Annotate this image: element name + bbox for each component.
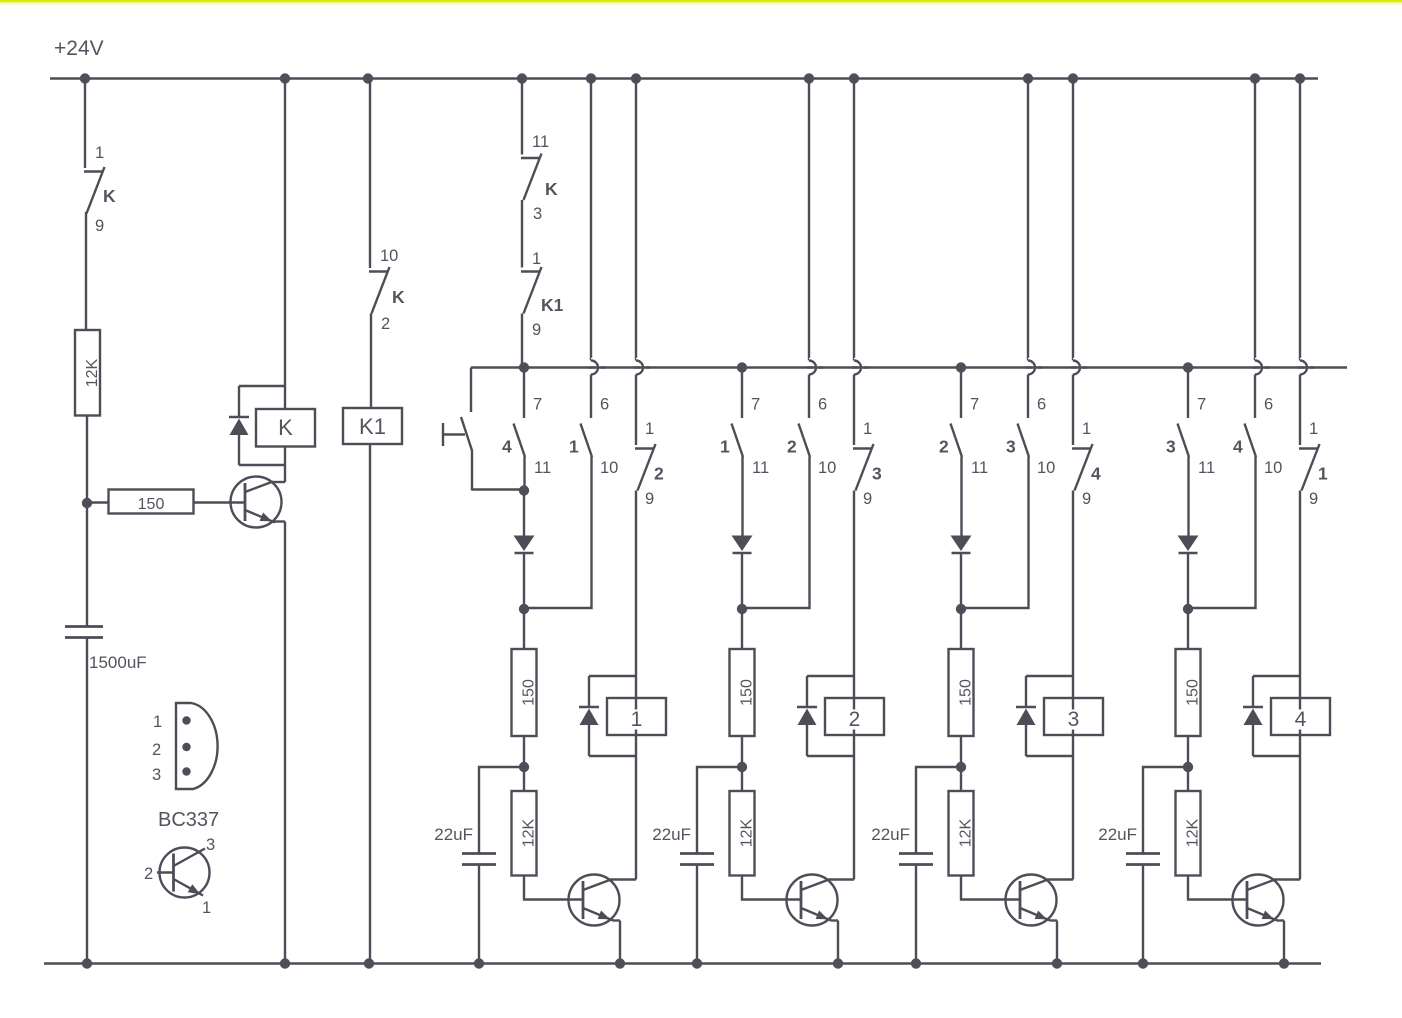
wire switch 3 down through relay coil 2 to collector bbox=[853, 491, 855, 880]
node B junction bbox=[82, 498, 92, 508]
wire rail2 to switch 4 stage 1 bbox=[523, 368, 525, 419]
svg-text:4: 4 bbox=[1233, 437, 1243, 457]
label 2 of relay coil bbox=[847, 710, 863, 730]
node T1 junction bbox=[519, 604, 529, 614]
diode D3b flyback of relay 3 bbox=[1016, 706, 1036, 709]
svg-text:1500uF: 1500uF bbox=[89, 653, 147, 672]
wire 150 to node U1 bbox=[523, 736, 525, 791]
wire switch 4 down to node T4 bbox=[1188, 457, 1256, 609]
svg-text:K: K bbox=[278, 415, 293, 440]
svg-text:K1: K1 bbox=[541, 295, 564, 315]
svg-text:12K: 12K bbox=[520, 818, 537, 847]
wire hop over rail2 at 636 bbox=[636, 361, 643, 375]
wire 12K to Q2 base bbox=[742, 876, 801, 900]
svg-text:11: 11 bbox=[752, 459, 769, 477]
svg-text:1: 1 bbox=[202, 899, 211, 917]
switch contact 7-11 (2) stage 3 bbox=[951, 424, 963, 458]
wire 12K to Q4 base bbox=[1188, 876, 1247, 900]
resistor 12K stage 3 bbox=[949, 791, 974, 876]
svg-text:2: 2 bbox=[849, 708, 861, 731]
svg-text:2: 2 bbox=[939, 437, 949, 457]
series diode D3a stage 3 bbox=[951, 536, 972, 552]
label K of relay coil bbox=[276, 419, 296, 439]
node U3 junction bbox=[956, 762, 966, 772]
transistor Q1 bbox=[569, 875, 620, 926]
node top rail junction ladder bbox=[517, 73, 527, 83]
resistor 12K stage 1 bbox=[512, 791, 537, 876]
wire flyback loop top relay 2 bbox=[807, 675, 854, 677]
wire QK emitter bend bbox=[273, 520, 285, 522]
svg-text:1: 1 bbox=[631, 708, 643, 731]
svg-text:1: 1 bbox=[95, 144, 104, 162]
wire diode D3b to loop bottom bbox=[1025, 725, 1027, 756]
capacitor 22uF C1 bbox=[462, 852, 496, 855]
node ground junction relay K1 bbox=[364, 958, 374, 968]
node ground junction Q2 bbox=[833, 958, 843, 968]
svg-text:10: 10 bbox=[380, 247, 398, 265]
wire Q2 collector to relay bbox=[828, 878, 854, 880]
svg-text:BC337: BC337 bbox=[158, 809, 219, 831]
svg-text:K: K bbox=[103, 186, 116, 206]
node ground junction Q3 bbox=[1052, 958, 1062, 968]
wire diode D3a to node T3 bbox=[960, 554, 962, 609]
svg-text:10: 10 bbox=[818, 459, 836, 477]
switch contact 6-10 (1) stage 1 bbox=[581, 424, 593, 458]
pushbutton start actuator stem bbox=[443, 433, 465, 435]
wire Q2 emitter to ground bbox=[837, 921, 839, 964]
wire C3 to ground rail bbox=[915, 865, 917, 964]
svg-text:10: 10 bbox=[1037, 459, 1055, 477]
wire switch 1 down through relay coil 4 to collector bbox=[1299, 491, 1301, 880]
resistor 150 stage 4 bbox=[1176, 649, 1201, 736]
switch K1 contact 1-9 bbox=[521, 270, 541, 272]
wire loop left down to diode DK bbox=[238, 386, 240, 416]
svg-text:1: 1 bbox=[720, 437, 730, 457]
svg-text:10: 10 bbox=[1264, 459, 1282, 477]
wire rail2 to switch 1 stage 2 bbox=[741, 368, 743, 419]
svg-text:3: 3 bbox=[1068, 708, 1080, 731]
svg-text:3: 3 bbox=[1006, 437, 1016, 457]
relay coil K bbox=[256, 409, 315, 447]
svg-text:1: 1 bbox=[569, 437, 579, 457]
wire switch 2 down to node T2 bbox=[742, 457, 810, 609]
svg-text:12K: 12K bbox=[1184, 818, 1201, 847]
svg-text:12K: 12K bbox=[84, 358, 101, 387]
node second rail junction stage 1 bbox=[519, 362, 529, 372]
wire +24V down to switch 3 stage 3 bbox=[1027, 79, 1029, 361]
BC337 package outline (TO-92 bottom view) bbox=[176, 703, 218, 789]
svg-text:+24V: +24V bbox=[54, 37, 104, 60]
diode D1b flyback of relay 1 bbox=[579, 706, 599, 709]
svg-text:2: 2 bbox=[787, 437, 797, 457]
wire diode D4a to node T4 bbox=[1187, 554, 1189, 609]
node U1 junction bbox=[519, 762, 529, 772]
wire hop to switch 3 contact bbox=[1027, 375, 1029, 419]
wire +24V down to relay coil K bbox=[284, 79, 286, 410]
svg-text:4: 4 bbox=[502, 437, 512, 457]
wire switch 2 down through relay coil 1 to collector bbox=[635, 491, 637, 880]
wire diode D1a to node T1 bbox=[523, 554, 525, 609]
svg-text:150: 150 bbox=[138, 496, 165, 513]
wire flyback loop top relay 3 bbox=[1026, 675, 1073, 677]
wire loop down to diode D3b bbox=[1025, 676, 1027, 706]
diode DK flyback of relay K bbox=[229, 416, 249, 419]
svg-text:1: 1 bbox=[1318, 464, 1328, 484]
wire 150 to node U3 bbox=[960, 736, 962, 791]
svg-text:11: 11 bbox=[532, 133, 549, 151]
label 1 of relay coil bbox=[629, 710, 645, 730]
svg-text:1: 1 bbox=[645, 420, 654, 438]
svg-text:9: 9 bbox=[95, 217, 104, 235]
wire node U1 to capacitor 22uF C1 bbox=[479, 767, 524, 853]
svg-text:6: 6 bbox=[818, 396, 827, 414]
transistor QK bbox=[231, 477, 282, 528]
wire hop to switch 2 contact bbox=[808, 375, 810, 419]
wire flyback loop bottom relay 3 bbox=[1026, 755, 1073, 757]
switch contact 1-9 (4) stage 3 bbox=[1072, 447, 1092, 449]
wire switch 1 down to node T1 bbox=[524, 457, 592, 609]
wire top +24V rail bbox=[50, 77, 1318, 80]
wire diode D2b to loop bottom bbox=[806, 725, 808, 756]
svg-text:11: 11 bbox=[534, 459, 551, 477]
resistor 150 stage 3 bbox=[949, 649, 974, 736]
node top rail junction relay K bbox=[280, 73, 290, 83]
wire diode DK to loop bottom bbox=[238, 435, 240, 465]
node ground junction left bbox=[82, 958, 92, 968]
switch contact 1-9 (1) stage 4 bbox=[1299, 447, 1319, 449]
svg-text:4: 4 bbox=[1295, 708, 1307, 731]
wire switch K 10-2 down to relay K1 bbox=[370, 314, 372, 409]
capacitor 22uF C4 bbox=[1126, 852, 1160, 855]
wire switch 4 to node S1 bbox=[523, 457, 525, 492]
resistor 150 stage 1 bbox=[512, 649, 537, 736]
wire diode D4b to loop bottom bbox=[1252, 725, 1254, 756]
svg-text:12K: 12K bbox=[738, 818, 755, 847]
svg-text:6: 6 bbox=[1037, 396, 1046, 414]
wire Q4 emitter to ground bbox=[1283, 921, 1285, 964]
svg-text:9: 9 bbox=[532, 321, 541, 339]
wire Q1 collector to relay bbox=[610, 878, 636, 880]
wire hop over rail2 at 809 bbox=[809, 361, 816, 375]
svg-text:10: 10 bbox=[600, 459, 618, 477]
transistor Q4 bbox=[1233, 875, 1284, 926]
svg-text:9: 9 bbox=[1082, 490, 1091, 508]
wire Q1 emitter to ground bbox=[619, 921, 621, 964]
wire diode D2a to node T2 bbox=[741, 554, 743, 609]
wire loop down to diode D2b bbox=[806, 676, 808, 706]
wire flyback loop bottom relay 4 bbox=[1253, 755, 1300, 757]
wire hop to switch 2 contact bbox=[635, 375, 637, 446]
wire Q3 emitter to ground bbox=[1056, 921, 1058, 964]
switch K contact 1-9 bbox=[84, 170, 104, 172]
wire hop to switch 4 contact bbox=[1254, 375, 1256, 419]
wire node B to resistor 150 bbox=[87, 501, 108, 503]
svg-text:3: 3 bbox=[872, 464, 882, 484]
wire +24V down to switch 2 stage 2 bbox=[808, 79, 810, 361]
svg-text:7: 7 bbox=[533, 396, 542, 414]
svg-text:9: 9 bbox=[645, 490, 654, 508]
label 4 of relay coil bbox=[1293, 710, 1309, 730]
wire +24V down to switch K pin 10 bbox=[369, 79, 371, 269]
node ground junction C2 bbox=[692, 958, 702, 968]
wire flyback loop top relay 1 bbox=[589, 675, 636, 677]
pushbutton start blade bbox=[461, 417, 472, 451]
series diode D4a stage 4 bbox=[1178, 536, 1199, 552]
wire 12K to Q1 base bbox=[524, 876, 583, 900]
resistor 12K stage 2 bbox=[730, 791, 755, 876]
wire switch 4 down through relay coil 3 to collector bbox=[1072, 491, 1074, 880]
wire 150 to node U2 bbox=[741, 736, 743, 791]
switch contact 7-11 (4) stage 1 bbox=[514, 424, 526, 458]
switch contact 1-9 (2) stage 1 bbox=[635, 447, 655, 449]
switch contact 7-11 (1) stage 2 bbox=[732, 424, 744, 458]
wire Q4 emitter bend bbox=[1277, 919, 1284, 921]
wire hop to switch 4 contact bbox=[1072, 375, 1074, 446]
svg-text:22uF: 22uF bbox=[652, 825, 691, 844]
svg-text:K: K bbox=[392, 287, 405, 307]
resistor 150 stage 2 bbox=[730, 649, 755, 736]
BC337 package pin dot 1 bbox=[182, 716, 190, 724]
switch contact 1-9 (3) stage 2 bbox=[853, 447, 873, 449]
node ground junction C3 bbox=[911, 958, 921, 968]
wire Q1 emitter bend bbox=[613, 919, 620, 921]
svg-text:11: 11 bbox=[971, 459, 988, 477]
wire hop over rail2 at 591 bbox=[591, 361, 598, 375]
wire +24V down to switch 4 stage 4 bbox=[1254, 79, 1256, 361]
node ground junction Q1 bbox=[615, 958, 625, 968]
node T4 junction bbox=[1183, 604, 1193, 614]
svg-text:1: 1 bbox=[1082, 420, 1091, 438]
wire node U2 to capacitor 22uF C2 bbox=[697, 767, 742, 853]
wire hop over rail2 at 1073 bbox=[1073, 361, 1080, 375]
resistor 150 (base resistor of QK) bbox=[109, 490, 194, 514]
switch contact 7-11 (3) stage 4 bbox=[1178, 424, 1190, 458]
node top rail junction b stage 3 bbox=[1023, 73, 1033, 83]
wire node T2 to resistor 150 stage 2 bbox=[741, 609, 743, 649]
svg-text:22uF: 22uF bbox=[871, 825, 910, 844]
yellow scan edge bar bbox=[0, 0, 1402, 2]
wire loop down to diode D1b bbox=[588, 676, 590, 706]
wire hop to switch 3 contact bbox=[853, 375, 855, 446]
node second rail junction stage 2 bbox=[737, 362, 747, 372]
node top rail junction c stage 3 bbox=[1068, 73, 1078, 83]
node top rail junction A bbox=[80, 73, 90, 83]
wire node U4 to capacitor 22uF C4 bbox=[1143, 767, 1188, 853]
node ground junction Q4 bbox=[1279, 958, 1289, 968]
wire +24V down to switch 2 stage 1 bbox=[635, 79, 637, 361]
wire +24V down to switch 1 stage 4 bbox=[1299, 79, 1301, 361]
wire switch 1 to series diode stage 2 bbox=[741, 457, 743, 537]
diode D2b flyback of relay 2 bbox=[797, 706, 817, 709]
svg-text:150: 150 bbox=[520, 679, 537, 706]
capacitor 22uF C3 bbox=[899, 852, 933, 855]
capacitor 22uF C2 bbox=[680, 852, 714, 855]
wire from +24V down to switch K pin 1 bbox=[84, 79, 86, 169]
relay coil 3 bbox=[1044, 698, 1103, 735]
node top rail junction c stage 1 bbox=[631, 73, 641, 83]
svg-text:7: 7 bbox=[970, 396, 979, 414]
relay coil 2 bbox=[825, 698, 884, 735]
svg-text:150: 150 bbox=[738, 679, 755, 706]
wire Q2 emitter bend bbox=[831, 919, 838, 921]
wire QK emitter down to ground bbox=[284, 522, 286, 964]
svg-text:1: 1 bbox=[532, 250, 541, 268]
wire node T4 to resistor 150 stage 4 bbox=[1187, 609, 1189, 649]
svg-text:22uF: 22uF bbox=[1098, 825, 1137, 844]
node second rail junction stage 4 bbox=[1183, 362, 1193, 372]
series diode D2a stage 2 bbox=[732, 536, 753, 552]
svg-text:22uF: 22uF bbox=[434, 825, 473, 844]
svg-text:7: 7 bbox=[751, 396, 760, 414]
BC337 package pin dot 3 bbox=[182, 767, 190, 775]
label K1 of relay coil bbox=[358, 418, 388, 438]
wire Q4 collector to relay bbox=[1274, 878, 1300, 880]
transistor Q3 bbox=[1006, 875, 1057, 926]
wire node T3 to resistor 150 stage 3 bbox=[960, 609, 962, 649]
switch contact 6-10 (2) stage 2 bbox=[799, 424, 811, 458]
svg-text:K: K bbox=[545, 179, 558, 199]
svg-text:7: 7 bbox=[1197, 396, 1206, 414]
wire rail2 to switch 3 stage 4 bbox=[1187, 368, 1189, 419]
switch K contact 10-2 bbox=[369, 270, 389, 272]
svg-text:1: 1 bbox=[1309, 420, 1318, 438]
wire loop down to diode D4b bbox=[1252, 676, 1254, 706]
wire switch K to resistor 12K bbox=[85, 212, 87, 330]
node T3 junction bbox=[956, 604, 966, 614]
node top rail junction b stage 4 bbox=[1250, 73, 1260, 83]
switch contact 6-10 (4) stage 4 bbox=[1245, 424, 1257, 458]
wire relay K to QK collector bbox=[284, 447, 286, 483]
wire diode D1b to loop bottom bbox=[588, 725, 590, 756]
node top rail junction b stage 2 bbox=[804, 73, 814, 83]
svg-text:1: 1 bbox=[153, 713, 162, 731]
wire resistor 150 to QK base bbox=[194, 501, 246, 503]
svg-text:4: 4 bbox=[1091, 464, 1101, 484]
node top rail junction c stage 4 bbox=[1295, 73, 1305, 83]
wire C4 to ground rail bbox=[1142, 865, 1144, 964]
wire +24V down to switch 1 stage 1 bbox=[590, 79, 592, 361]
wire switch 3 to series diode stage 4 bbox=[1187, 457, 1189, 537]
svg-text:9: 9 bbox=[1309, 490, 1318, 508]
wire QK collector horizontal bbox=[271, 481, 285, 483]
wire 12K to node B bbox=[86, 416, 88, 627]
node T2 junction bbox=[737, 604, 747, 614]
svg-text:K1: K1 bbox=[359, 414, 386, 439]
wire hop to switch 1 contact bbox=[590, 375, 592, 419]
relay coil K1 bbox=[343, 408, 402, 444]
BC337 symbol transistor bbox=[160, 848, 210, 898]
wire Q3 collector to relay bbox=[1047, 878, 1073, 880]
wire node U3 to capacitor 22uF C3 bbox=[916, 767, 961, 853]
wire hop over rail2 at 1300 bbox=[1300, 361, 1307, 375]
node ground junction C4 bbox=[1138, 958, 1148, 968]
svg-text:150: 150 bbox=[957, 679, 974, 706]
wire flyback loop bottom relay 2 bbox=[807, 755, 854, 757]
resistor 12K (left divider) bbox=[75, 330, 100, 416]
node S1 junction pushbutton bbox=[519, 485, 529, 495]
node top rail junction b stage 1 bbox=[586, 73, 596, 83]
svg-text:1: 1 bbox=[863, 420, 872, 438]
svg-text:3: 3 bbox=[1166, 437, 1176, 457]
wire +24V down to switch 4 stage 3 bbox=[1072, 79, 1074, 361]
wire flyback loop top of relay K bbox=[239, 385, 285, 387]
node ground junction QK emitter bbox=[280, 958, 290, 968]
svg-text:3: 3 bbox=[533, 205, 542, 223]
svg-text:9: 9 bbox=[863, 490, 872, 508]
wire switch K 11-3 to switch K1 pin 1 bbox=[521, 200, 523, 268]
wire 12K to Q3 base bbox=[961, 876, 1020, 900]
wire node T1 to resistor 150 stage 1 bbox=[523, 609, 525, 649]
relay coil 4 bbox=[1271, 698, 1330, 735]
wire relay K1 to ground rail bbox=[369, 444, 371, 964]
wire switch 3 down to node T3 bbox=[961, 457, 1029, 609]
svg-text:3: 3 bbox=[206, 836, 215, 854]
node U2 junction bbox=[737, 762, 747, 772]
wire rail2 to switch 2 stage 3 bbox=[960, 368, 962, 419]
wire 150 to node U4 bbox=[1187, 736, 1189, 791]
series diode D1a stage 1 bbox=[514, 536, 535, 552]
node top rail junction relay K1 bbox=[363, 73, 373, 83]
transistor Q2 bbox=[787, 875, 838, 926]
svg-text:11: 11 bbox=[1198, 459, 1215, 477]
wire hop over rail2 at 1255 bbox=[1255, 361, 1262, 375]
wire flyback loop bottom relay 1 bbox=[589, 755, 636, 757]
svg-text:2: 2 bbox=[381, 315, 390, 333]
wire pushbutton to node S1 bbox=[472, 488, 524, 490]
svg-text:3: 3 bbox=[152, 766, 161, 784]
wire hop over rail2 at 854 bbox=[854, 361, 861, 375]
node second rail junction stage 3 bbox=[956, 362, 966, 372]
wire 1500uF to ground rail bbox=[86, 638, 88, 964]
svg-text:2: 2 bbox=[144, 865, 153, 883]
wire C1 to ground rail bbox=[478, 865, 480, 964]
relay coil 1 bbox=[607, 698, 666, 735]
svg-text:6: 6 bbox=[1264, 396, 1273, 414]
wire bottom ground rail bbox=[44, 962, 1321, 965]
node top rail junction c stage 2 bbox=[849, 73, 859, 83]
wire switch K1 down to second rail bbox=[521, 314, 523, 368]
capacitor 1500uF bbox=[65, 625, 103, 628]
node U4 junction bbox=[1183, 762, 1193, 772]
svg-text:2: 2 bbox=[152, 741, 161, 759]
wire switch 2 to series diode stage 3 bbox=[960, 457, 962, 537]
wire second rail (common) bbox=[471, 366, 1347, 369]
diode D4b flyback of relay 4 bbox=[1243, 706, 1263, 709]
wire hop over rail2 at 1028 bbox=[1028, 361, 1035, 375]
wire flyback loop bottom of relay K bbox=[239, 464, 285, 466]
label 3 of relay coil bbox=[1066, 710, 1082, 730]
pushbutton start actuator bar bbox=[442, 423, 444, 446]
node ground junction C1 bbox=[474, 958, 484, 968]
svg-text:6: 6 bbox=[600, 396, 609, 414]
wire +24V down to switch K pin 11 bbox=[521, 79, 523, 155]
BC337 package pin dot 2 bbox=[182, 743, 190, 751]
wire flyback loop top relay 4 bbox=[1253, 675, 1300, 677]
svg-text:12K: 12K bbox=[957, 818, 974, 847]
switch contact 6-10 (3) stage 3 bbox=[1018, 424, 1030, 458]
wire node S1 to series diode bbox=[523, 491, 525, 536]
svg-text:2: 2 bbox=[654, 464, 664, 484]
wire second rail corner down bbox=[470, 368, 472, 413]
resistor 12K stage 4 bbox=[1176, 791, 1201, 876]
svg-text:150: 150 bbox=[1184, 679, 1201, 706]
wire pushbutton down bbox=[471, 450, 473, 491]
switch K contact 11-3 bbox=[521, 157, 541, 159]
wire hop to switch 1 contact bbox=[1299, 375, 1301, 446]
wire +24V down to switch 3 stage 2 bbox=[853, 79, 855, 361]
wire C2 to ground rail bbox=[696, 865, 698, 964]
wire Q3 emitter bend bbox=[1050, 919, 1057, 921]
